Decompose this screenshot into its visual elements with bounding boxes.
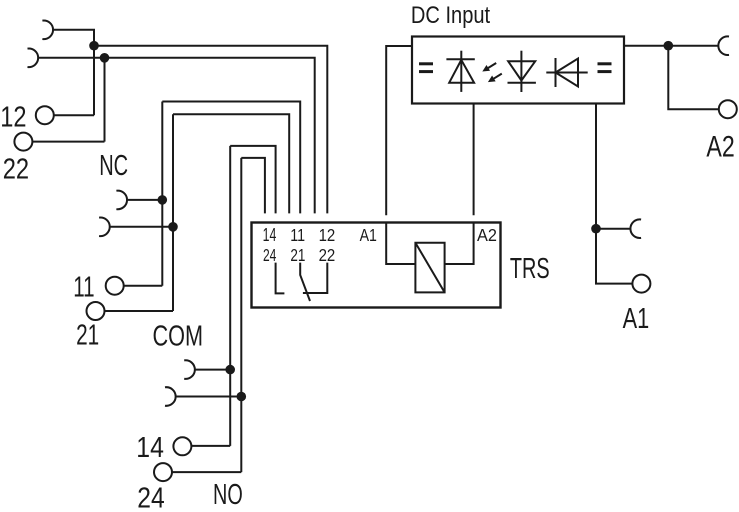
wire DC box left to pin A1 bbox=[386, 46, 412, 215]
diode D1 wire bbox=[460, 51, 462, 92]
wire node 21 vertical bbox=[172, 114, 174, 311]
plug contact arc (node 11) bbox=[116, 191, 127, 210]
terminal circle 14 bbox=[173, 437, 191, 455]
diode D2 triangle bbox=[508, 61, 535, 80]
DC polarity sign left = bbox=[419, 62, 433, 73]
plug contact arc (node 22) bbox=[28, 49, 39, 68]
relay coil K1 bbox=[415, 243, 444, 293]
wire arc4 to junction bbox=[110, 226, 174, 228]
svg-text:21: 21 bbox=[76, 319, 99, 351]
svg-text:12: 12 bbox=[319, 225, 336, 246]
wire circle 14 to vertical bbox=[191, 445, 230, 447]
wire A2 down to circle bbox=[668, 46, 719, 109]
node 11 junction dot3 bbox=[158, 195, 168, 205]
wire circle 22 to vertical bbox=[32, 141, 104, 143]
contact 22 (NC) bbox=[303, 263, 327, 293]
svg-text:11: 11 bbox=[73, 271, 94, 303]
svg-text:22: 22 bbox=[319, 245, 336, 266]
svg-text:A1: A1 bbox=[360, 225, 377, 245]
wire circle 21 to vertical bbox=[105, 310, 174, 312]
wire node 24 vertical bbox=[240, 158, 242, 472]
wire circle 24 to vertical bbox=[172, 471, 242, 473]
svg-text:12: 12 bbox=[0, 100, 26, 133]
svg-text:11: 11 bbox=[290, 225, 305, 245]
terminal circle 12 bbox=[36, 106, 54, 124]
svg-text:TRS: TRS bbox=[510, 253, 550, 285]
terminal circle 21 bbox=[87, 302, 105, 320]
LED arrow 1 bbox=[482, 63, 496, 72]
diode D2 wire bbox=[520, 51, 522, 92]
wire line D: node 21 to relay pin bbox=[173, 114, 289, 213]
DC polarity sign right = bbox=[598, 62, 612, 73]
plug contact arc A2 bbox=[718, 36, 729, 55]
diode D3 cathode bar bbox=[555, 58, 557, 87]
wire node 11 vertical bbox=[161, 102, 163, 286]
plug contact arc A1 bbox=[630, 219, 641, 238]
wire line E: node 14 to relay pin bbox=[230, 146, 275, 214]
node 12 junction dot1 bbox=[89, 41, 99, 51]
diode D2 cathode bar bbox=[508, 82, 536, 84]
wire node 14 vertical bbox=[229, 146, 231, 446]
svg-text:A2: A2 bbox=[706, 129, 734, 163]
terminal circle 24 bbox=[154, 463, 172, 481]
diode D1 triangle bbox=[449, 60, 474, 83]
contact 24 (NO) bbox=[276, 263, 285, 294]
terminal circle A1 bbox=[632, 275, 650, 293]
svg-text:14: 14 bbox=[263, 226, 277, 246]
wire DC box bottom to terminal A1 bbox=[596, 104, 633, 284]
plug contact arc (node 12) bbox=[42, 21, 53, 40]
svg-text:24: 24 bbox=[263, 246, 277, 266]
plug contact arc (node 24) bbox=[165, 387, 176, 406]
svg-text:DC Input: DC Input bbox=[411, 1, 491, 28]
terminal circle 22 bbox=[14, 133, 32, 151]
wire pin A2 to coil bbox=[445, 223, 474, 265]
svg-text:21: 21 bbox=[290, 246, 305, 265]
diode D1 cathode bar bbox=[446, 58, 474, 60]
wire circle 12 to vertical bbox=[54, 114, 95, 116]
DC input box U1 bbox=[412, 37, 624, 104]
diode D3 wire bbox=[546, 72, 587, 74]
contact pole 21 bbox=[300, 263, 310, 301]
wire line B: node 22 to relay pin bbox=[105, 58, 315, 214]
terminal circle 11 bbox=[106, 277, 124, 295]
plug contact arc (node 21) bbox=[99, 218, 110, 237]
node 24 junction dot6 bbox=[237, 392, 247, 402]
wire arc6 to junction bbox=[175, 396, 241, 398]
svg-text:COM: COM bbox=[153, 320, 204, 352]
svg-text:A1: A1 bbox=[623, 303, 650, 335]
wire A1 to arc bbox=[596, 228, 631, 230]
junction dot A1 bbox=[591, 224, 601, 234]
node 14 junction dot5 bbox=[225, 365, 235, 375]
wire DC box right to terminal A2 bbox=[624, 45, 719, 47]
svg-text:NO: NO bbox=[213, 480, 243, 512]
wire line A: node 12 to relay pin bbox=[94, 46, 327, 214]
LED arrow 2 bbox=[488, 74, 502, 83]
wire line C: node 11 to relay pin bbox=[162, 102, 300, 214]
svg-text:22: 22 bbox=[3, 152, 29, 185]
wire circle 11 to vertical bbox=[124, 285, 163, 287]
wire arc3 to junction bbox=[127, 199, 163, 201]
wire arc2 to junction bbox=[38, 58, 105, 142]
plug contact arc (node 14) bbox=[184, 360, 195, 379]
relay module box TRS bbox=[252, 223, 501, 308]
wire arc1 to corner bbox=[53, 30, 94, 115]
svg-text:24: 24 bbox=[137, 481, 164, 512]
svg-text:A2: A2 bbox=[477, 224, 497, 245]
junction dot A2 bbox=[664, 41, 674, 51]
wire pin A1 to coil bbox=[386, 223, 415, 265]
terminal circle A2 bbox=[719, 100, 737, 118]
node 22 junction dot2 bbox=[100, 53, 110, 63]
svg-text:NC: NC bbox=[99, 149, 128, 182]
wire arc5 to junction bbox=[195, 369, 231, 371]
wire line F: node 24 to relay pin bbox=[241, 158, 265, 214]
node 21 junction dot4 bbox=[168, 222, 178, 232]
diode D3 triangle bbox=[556, 59, 579, 87]
svg-text:14: 14 bbox=[136, 431, 164, 463]
wire DC box bottom to pin A2 bbox=[473, 104, 475, 216]
